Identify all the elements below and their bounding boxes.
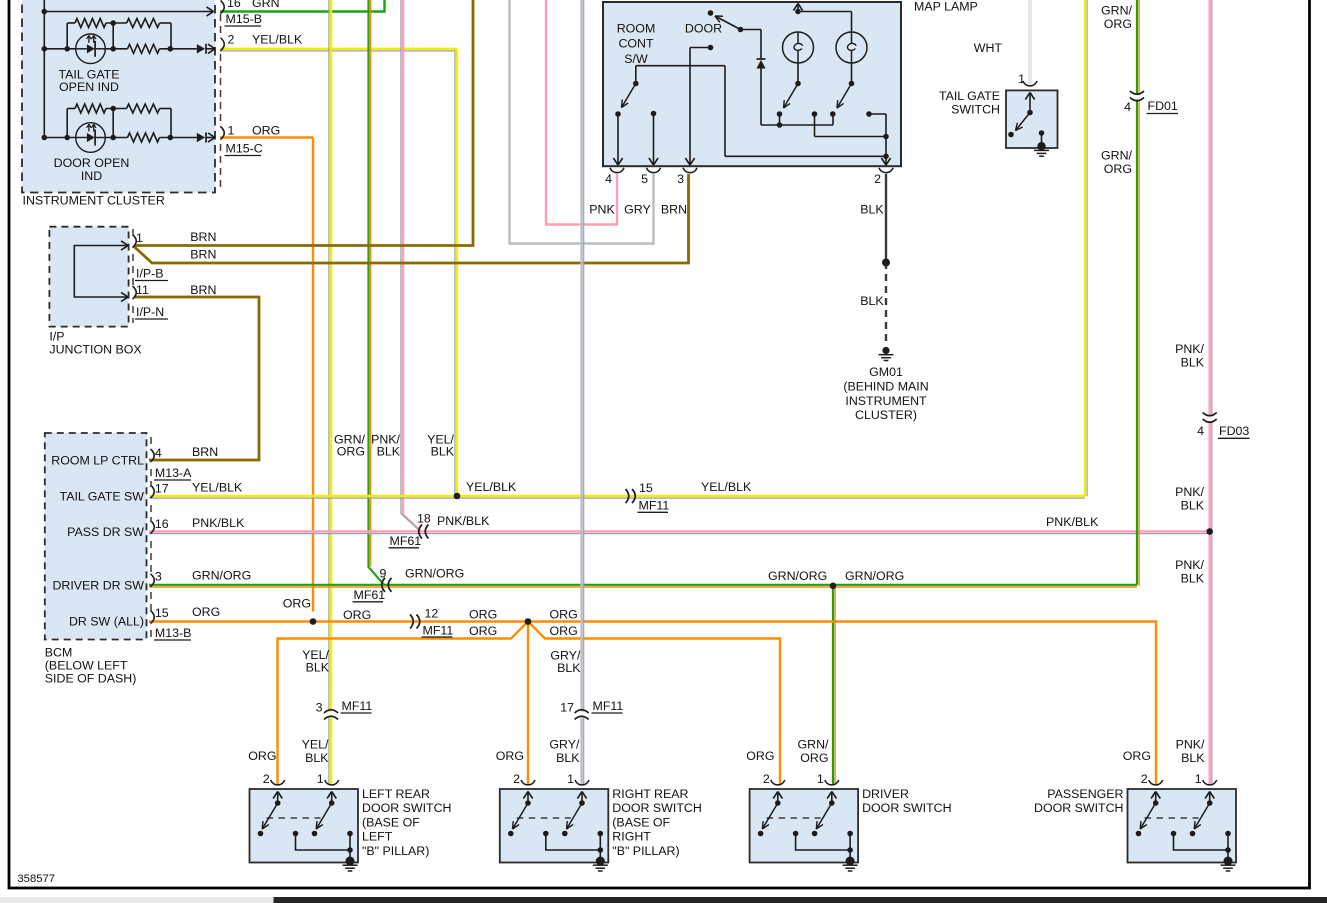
svg-text:2: 2 [1141, 772, 1148, 786]
svg-text:1: 1 [567, 772, 574, 786]
svg-text:15: 15 [155, 606, 169, 620]
svg-text:SWITCH: SWITCH [951, 103, 1000, 117]
svg-text:M15-C: M15-C [226, 142, 263, 156]
svg-text:IND: IND [81, 169, 102, 183]
svg-text:12: 12 [425, 607, 439, 621]
svg-text:2: 2 [228, 33, 235, 47]
svg-text:BLK: BLK [1181, 572, 1205, 586]
svg-text:1: 1 [317, 772, 324, 786]
svg-text:DOOR: DOOR [685, 22, 722, 36]
svg-text:16: 16 [227, 0, 241, 10]
svg-text:BRN: BRN [190, 230, 216, 244]
svg-text:PNK/: PNK/ [1175, 342, 1204, 356]
svg-text:GM01: GM01 [869, 365, 903, 379]
svg-text:4: 4 [605, 172, 612, 186]
svg-text:"B" PILLAR): "B" PILLAR) [612, 844, 679, 858]
svg-text:MF11: MF11 [593, 699, 624, 713]
svg-text:DOOR SWITCH: DOOR SWITCH [362, 801, 451, 815]
svg-text:M13-A: M13-A [155, 466, 192, 480]
svg-text:MF61: MF61 [390, 534, 422, 548]
svg-text:DOOR OPEN: DOOR OPEN [54, 156, 130, 170]
svg-text:I/P-B: I/P-B [136, 267, 164, 281]
svg-text:MF11: MF11 [639, 499, 670, 513]
svg-text:PNK/: PNK/ [1175, 558, 1204, 572]
svg-text:INSTRUMENT CLUSTER: INSTRUMENT CLUSTER [23, 194, 165, 208]
svg-text:DR SW (ALL): DR SW (ALL) [69, 615, 144, 629]
svg-text:2: 2 [874, 172, 881, 186]
svg-text:YEL/: YEL/ [302, 738, 329, 752]
svg-text:FD01: FD01 [1148, 99, 1178, 113]
svg-text:11: 11 [136, 283, 149, 297]
svg-text:BRN: BRN [661, 203, 687, 217]
svg-text:1: 1 [817, 772, 824, 786]
svg-text:DOOR SWITCH: DOOR SWITCH [612, 801, 701, 815]
svg-text:2: 2 [263, 772, 270, 786]
svg-text:BLK: BLK [557, 661, 581, 675]
svg-text:ORG: ORG [1104, 17, 1132, 31]
svg-text:ORG: ORG [1123, 749, 1151, 763]
svg-text:GRN: GRN [252, 0, 280, 10]
svg-text:OPEN IND: OPEN IND [59, 80, 119, 94]
svg-text:17: 17 [155, 482, 169, 496]
svg-text:(BELOW LEFT: (BELOW LEFT [45, 659, 128, 673]
svg-text:RIGHT: RIGHT [612, 830, 651, 844]
svg-text:DRIVER DR SW: DRIVER DR SW [52, 579, 144, 593]
svg-text:2: 2 [513, 772, 520, 786]
svg-text:MF61: MF61 [354, 588, 386, 602]
svg-text:WHT: WHT [974, 41, 1003, 55]
svg-text:ORG: ORG [496, 749, 524, 763]
svg-text:2: 2 [763, 772, 770, 786]
svg-text:1: 1 [1195, 772, 1202, 786]
svg-text:1: 1 [228, 124, 235, 138]
svg-text:ORG: ORG [248, 749, 276, 763]
svg-text:BLK: BLK [305, 751, 329, 765]
svg-text:4: 4 [1124, 100, 1131, 114]
svg-text:CONT: CONT [618, 37, 654, 51]
svg-text:ORG: ORG [343, 608, 371, 622]
svg-text:BLK: BLK [1181, 356, 1205, 370]
svg-text:SIDE OF DASH): SIDE OF DASH) [45, 672, 137, 686]
svg-text:(BASE OF: (BASE OF [362, 815, 420, 829]
svg-text:PNK/BLK: PNK/BLK [1046, 515, 1099, 529]
svg-text:YEL/BLK: YEL/BLK [252, 33, 303, 47]
svg-text:BRN: BRN [190, 283, 216, 297]
svg-text:ORG: ORG [746, 749, 774, 763]
svg-text:"B" PILLAR): "B" PILLAR) [362, 844, 429, 858]
svg-text:1: 1 [136, 231, 143, 245]
svg-text:YEL/BLK: YEL/BLK [466, 480, 517, 494]
svg-text:3: 3 [677, 172, 684, 186]
svg-text:ROOM: ROOM [617, 22, 656, 36]
svg-text:ORG: ORG [469, 608, 497, 622]
svg-text:GRN/ORG: GRN/ORG [192, 569, 251, 583]
svg-text:BCM: BCM [45, 646, 73, 660]
svg-text:15: 15 [639, 481, 653, 495]
svg-text:MAP LAMP: MAP LAMP [914, 0, 978, 14]
svg-text:PASSENGER: PASSENGER [1047, 787, 1123, 801]
svg-text:ORG: ORG [252, 124, 280, 138]
svg-text:GRN/ORG: GRN/ORG [845, 569, 904, 583]
svg-text:JUNCTION BOX: JUNCTION BOX [49, 343, 141, 357]
svg-text:GRN/ORG: GRN/ORG [405, 567, 464, 581]
svg-text:17: 17 [560, 701, 574, 715]
svg-text:ORG: ORG [550, 608, 578, 622]
svg-text:GRN/: GRN/ [1101, 4, 1133, 18]
svg-text:BLK: BLK [860, 294, 884, 308]
svg-text:DOOR SWITCH: DOOR SWITCH [1034, 801, 1123, 815]
svg-text:(BASE OF: (BASE OF [612, 815, 670, 829]
svg-text:YEL/BLK: YEL/BLK [192, 481, 243, 495]
svg-text:DOOR SWITCH: DOOR SWITCH [862, 801, 951, 815]
svg-text:I/P-N: I/P-N [136, 305, 164, 319]
svg-text:GRY: GRY [624, 203, 651, 217]
svg-text:(BEHIND MAIN: (BEHIND MAIN [843, 380, 928, 394]
svg-text:5: 5 [641, 172, 648, 186]
svg-text:I/P: I/P [49, 330, 64, 344]
svg-text:358577: 358577 [17, 873, 55, 885]
svg-text:18: 18 [417, 512, 431, 526]
svg-text:BLK: BLK [860, 203, 884, 217]
svg-text:M13-B: M13-B [155, 626, 192, 640]
svg-text:GRN/ORG: GRN/ORG [768, 569, 827, 583]
svg-text:GRN/: GRN/ [798, 738, 830, 752]
svg-text:INSTRUMENT: INSTRUMENT [845, 394, 927, 408]
svg-text:S/W: S/W [624, 52, 648, 66]
svg-text:ORG: ORG [337, 445, 365, 459]
svg-text:16: 16 [155, 517, 169, 531]
svg-text:GRY/: GRY/ [549, 738, 580, 752]
svg-text:BLK: BLK [556, 751, 580, 765]
svg-text:BRN: BRN [192, 445, 218, 459]
svg-text:ORG: ORG [469, 624, 497, 638]
svg-text:DRIVER: DRIVER [862, 787, 909, 801]
svg-text:TAIL GATE SW: TAIL GATE SW [60, 490, 145, 504]
svg-text:PNK/: PNK/ [1175, 485, 1204, 499]
svg-text:BLK: BLK [377, 445, 401, 459]
svg-text:ROOM LP CTRL: ROOM LP CTRL [51, 454, 144, 468]
svg-text:LEFT: LEFT [362, 830, 393, 844]
svg-text:1: 1 [1018, 72, 1025, 86]
svg-text:ORG: ORG [283, 597, 311, 611]
svg-text:BLK: BLK [431, 445, 455, 459]
svg-text:RIGHT REAR: RIGHT REAR [612, 787, 688, 801]
svg-text:3: 3 [316, 701, 323, 715]
svg-text:YEL/BLK: YEL/BLK [701, 480, 752, 494]
svg-text:9: 9 [380, 567, 387, 581]
svg-text:FD03: FD03 [1219, 424, 1249, 438]
svg-text:BLK: BLK [1181, 499, 1205, 513]
svg-text:M15-B: M15-B [226, 12, 263, 26]
svg-text:PNK/BLK: PNK/BLK [437, 514, 490, 528]
svg-text:PNK: PNK [589, 203, 615, 217]
svg-text:3: 3 [155, 570, 162, 584]
svg-text:ORG: ORG [192, 605, 220, 619]
svg-text:PASS DR SW: PASS DR SW [67, 525, 144, 539]
svg-text:BLK: BLK [306, 661, 330, 675]
svg-text:PNK/: PNK/ [1176, 738, 1205, 752]
svg-text:MF11: MF11 [342, 699, 373, 713]
svg-text:PNK/BLK: PNK/BLK [192, 516, 245, 530]
svg-text:BLK: BLK [1181, 751, 1205, 765]
svg-text:ORG: ORG [1104, 162, 1132, 176]
svg-text:MF11: MF11 [423, 624, 454, 638]
svg-text:BRN: BRN [190, 248, 216, 262]
svg-text:CLUSTER): CLUSTER) [855, 408, 917, 422]
svg-text:GRN/: GRN/ [1101, 149, 1133, 163]
svg-text:ORG: ORG [550, 624, 578, 638]
svg-text:LEFT REAR: LEFT REAR [362, 787, 430, 801]
svg-text:4: 4 [1197, 424, 1204, 438]
svg-text:TAIL GATE: TAIL GATE [939, 89, 1000, 103]
svg-text:ORG: ORG [800, 751, 828, 765]
svg-text:4: 4 [155, 446, 162, 460]
